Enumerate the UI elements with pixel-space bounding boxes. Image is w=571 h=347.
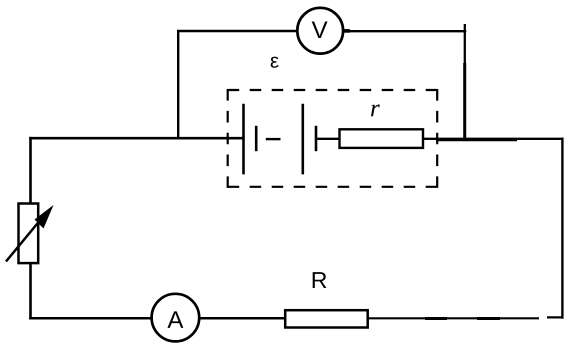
dashed box right edge bbox=[436, 89, 438, 188]
wire left vertical (top section, rheostat top lead) bbox=[29, 137, 32, 203]
battery cell 1 short plate bbox=[255, 126, 258, 151]
variable resistor (rheostat) body bbox=[19, 204, 39, 264]
wire right branch vertical bbox=[464, 24, 466, 141]
resistor R body bbox=[285, 310, 368, 327]
wire bottom right stub after gap bbox=[547, 316, 564, 318]
battery cell 2 long plate bbox=[301, 104, 304, 175]
wire top horizontal to voltmeter bbox=[177, 30, 297, 32]
wire voltmeter to right vertical bbox=[344, 30, 467, 32]
wire voltmeter right terminal tick bbox=[344, 29, 350, 33]
wire bottom overlap segment 1 bbox=[425, 317, 447, 320]
dashed box left edge bbox=[227, 89, 229, 188]
wire voltmeter branch vertical bbox=[177, 30, 179, 139]
battery cell 2 short plate bbox=[315, 126, 318, 151]
dashed box (battery with internal resistance) top edge bbox=[228, 89, 438, 91]
variable resistor arrowhead bbox=[35, 205, 54, 229]
dashed box bottom edge bbox=[228, 186, 438, 188]
variable resistor arrow shaft bbox=[6, 216, 44, 262]
voltmeter V bbox=[297, 8, 343, 54]
internal resistance r body bbox=[340, 129, 424, 148]
wire cell 2 to internal resistance bbox=[316, 138, 339, 140]
label R bbox=[313, 272, 327, 288]
wire dash between cells bbox=[266, 138, 281, 140]
ammeter A bbox=[152, 294, 200, 342]
wire left vertical (bottom section, rheostat bottom lead) bbox=[29, 263, 32, 319]
wire right branch vertical lower overlap bbox=[463, 63, 466, 141]
wire ammeter to resistor R bbox=[200, 317, 285, 320]
wire bottom left horizontal to ammeter bbox=[29, 317, 151, 320]
battery cell 1 long plate bbox=[242, 104, 245, 175]
wire top-left horizontal to battery bbox=[29, 137, 243, 140]
wire right side vertical bbox=[561, 138, 563, 319]
wire battery output horizontal bbox=[424, 138, 564, 140]
label ε (emf) bbox=[271, 57, 279, 68]
label r bbox=[371, 105, 380, 117]
wire bottom overlap segment 2 bbox=[477, 317, 500, 320]
wire battery output overlap segment bbox=[437, 139, 517, 142]
wire resistor R to right (with break) bbox=[369, 317, 540, 319]
